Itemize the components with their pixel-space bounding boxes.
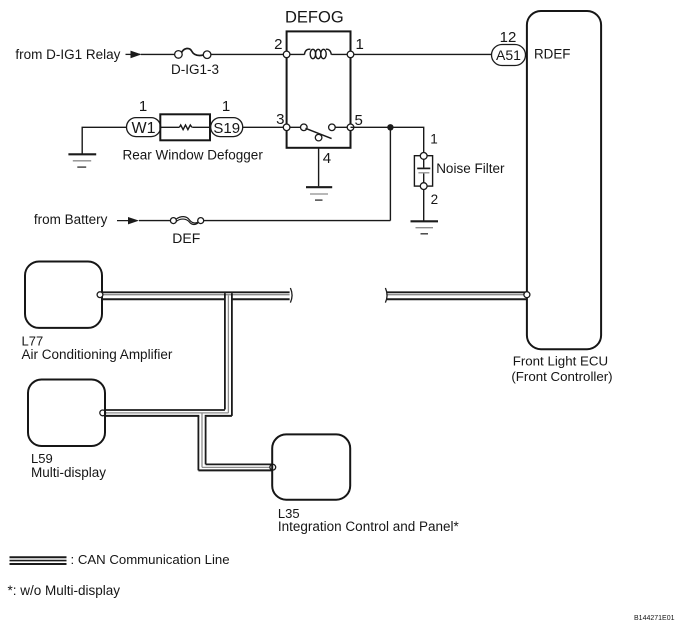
svg-text:4: 4	[323, 150, 331, 167]
relay box DEFOG	[287, 31, 351, 147]
left ground wire	[82, 127, 126, 153]
svg-text:Noise Filter: Noise Filter	[436, 161, 505, 176]
resistor box Rear Window Defogger	[160, 114, 210, 140]
wire fuse to DEFOG pin 2 and into coil	[211, 53, 305, 55]
svg-text:2: 2	[431, 192, 439, 207]
ECU box Front Light ECU	[527, 11, 601, 349]
svg-text:3: 3	[276, 111, 284, 128]
CAN break mark left segment	[290, 288, 292, 303]
svg-text:1: 1	[356, 36, 364, 53]
wire fuse DEF to junction riser	[204, 220, 391, 222]
svg-text:(Front Controller): (Front Controller)	[511, 369, 612, 384]
svg-text:D-IG1-3: D-IG1-3	[171, 62, 219, 77]
svg-text:DEF: DEF	[172, 230, 200, 246]
box L35	[272, 434, 350, 499]
svg-text:*: w/o Multi-display: *: w/o Multi-display	[8, 583, 121, 598]
svg-text:A51: A51	[496, 47, 521, 63]
terminal L59	[100, 410, 106, 416]
fuse DEF fusible link	[170, 217, 203, 225]
svg-text:Rear Window Defogger: Rear Window Defogger	[123, 147, 264, 162]
legend CAN symbol	[10, 557, 67, 564]
svg-text:1: 1	[222, 98, 230, 115]
pin 2 terminal	[283, 51, 290, 58]
terminal ECU CAN	[524, 292, 530, 298]
pin 1 terminal	[347, 51, 354, 58]
svg-text:1: 1	[430, 132, 438, 147]
wire from arrow to fuse D-IG1-3	[141, 53, 175, 55]
svg-text:B144271E01: B144271E01	[634, 615, 675, 622]
resistor wire and zigzag	[160, 125, 210, 130]
noise filter lower wire	[423, 190, 425, 221]
terminal L35	[270, 464, 276, 470]
ground noise filter	[411, 221, 439, 234]
CAN line B L59	[104, 410, 232, 416]
fuse D-IG1-3	[175, 48, 211, 58]
svg-text:S19: S19	[213, 120, 240, 137]
terminal L77	[97, 292, 103, 298]
svg-text:Multi-display: Multi-display	[31, 465, 106, 480]
junction node	[387, 124, 393, 130]
wire battery to fuse DEF	[139, 220, 171, 222]
svg-text:Front Light ECU: Front Light ECU	[513, 354, 608, 369]
CAN line C to L35	[198, 464, 272, 470]
CAN break mark right segment	[385, 288, 387, 303]
svg-text:: CAN Communication Line: : CAN Communication Line	[71, 552, 230, 567]
connector S19	[211, 118, 243, 137]
wire junction down to battery line	[389, 127, 391, 220]
connector A51	[492, 45, 526, 66]
ground left	[68, 154, 96, 167]
relay coil	[304, 49, 331, 58]
svg-text:12: 12	[500, 29, 517, 46]
relay switch	[287, 124, 351, 141]
svg-text:RDEF: RDEF	[534, 46, 570, 61]
svg-text:2: 2	[274, 36, 282, 53]
pin 3 terminal	[283, 124, 290, 131]
wire S19 to pin 3	[243, 126, 287, 128]
CAN vertical branch	[225, 293, 232, 416]
CAN line D to ECU	[386, 292, 527, 299]
relay pin 4 wire	[318, 148, 320, 187]
svg-text:from Battery: from Battery	[34, 212, 108, 227]
arrow battery	[117, 217, 139, 224]
noise filter	[414, 153, 432, 190]
pin 5 terminal	[347, 124, 354, 131]
arrow into D-IG1 wire	[126, 51, 142, 59]
connector W1	[127, 118, 161, 137]
box L59	[28, 380, 105, 447]
wire coil to pin1 to A51	[331, 53, 491, 55]
svg-text:1: 1	[139, 98, 147, 115]
svg-text:W1: W1	[132, 120, 156, 137]
wire pin 5 to junction to noise filter drop	[351, 127, 424, 153]
box L77	[25, 262, 102, 328]
svg-text:from D-IG1 Relay: from D-IG1 Relay	[15, 47, 120, 62]
svg-text:DEFOG: DEFOG	[285, 8, 344, 26]
CAN line A L77 to break	[103, 292, 290, 299]
svg-text:5: 5	[355, 112, 363, 129]
CAN jog down to L35	[198, 413, 205, 470]
svg-text:Integration Control and Panel*: Integration Control and Panel*	[278, 519, 460, 534]
ground relay pin 4	[306, 187, 332, 200]
svg-text:Air Conditioning Amplifier: Air Conditioning Amplifier	[22, 347, 173, 362]
